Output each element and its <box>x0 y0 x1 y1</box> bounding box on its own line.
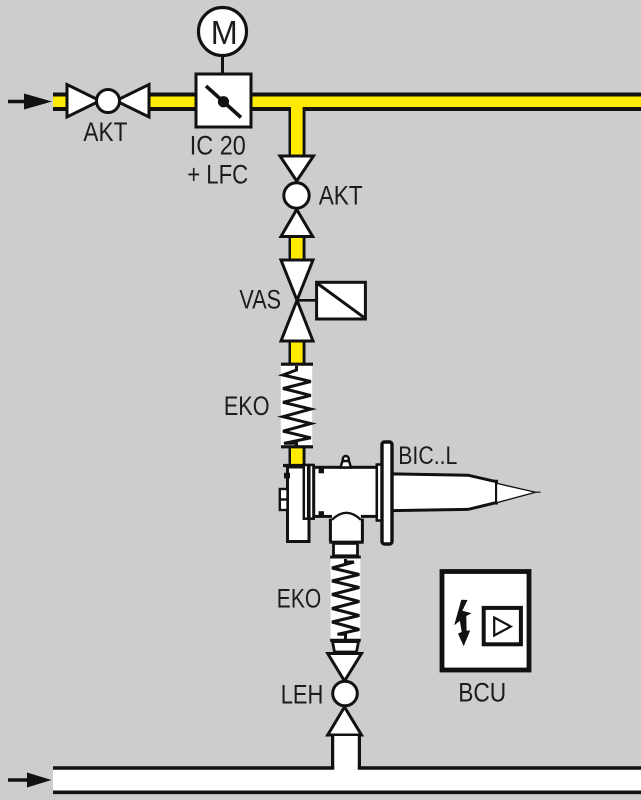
stub flare line <box>329 541 363 544</box>
arrow gas inlet <box>8 94 52 110</box>
control unit BCU <box>442 572 529 671</box>
bolt top <box>319 468 324 473</box>
svg-text:AKT: AKT <box>319 181 363 211</box>
play button <box>484 608 521 644</box>
adapter to EKO2 <box>334 543 358 555</box>
svg-text:EKO: EKO <box>277 584 321 614</box>
nozzle <box>497 483 536 503</box>
solenoid valve VAS <box>281 260 365 341</box>
actuator IC 20 + LFC <box>196 74 251 127</box>
down stub <box>332 514 361 542</box>
svg-text:AKT: AKT <box>83 117 127 147</box>
bolt bottom <box>319 511 324 516</box>
motor M <box>199 8 247 76</box>
expansion joint EKO (upper) <box>281 364 313 447</box>
gas pipe horizontal (main) <box>53 93 641 157</box>
top nub <box>343 456 349 462</box>
left tabs <box>280 489 288 510</box>
valve AKT (vertical) <box>280 156 314 237</box>
valve LEH <box>328 654 362 736</box>
svg-text:LEH: LEH <box>281 679 324 709</box>
flange bars <box>304 465 308 519</box>
right adapter ring <box>377 465 382 521</box>
svg-text:M: M <box>211 15 238 52</box>
tube <box>392 474 496 511</box>
svg-text:IC 20: IC 20 <box>190 131 246 161</box>
arrow air inlet <box>8 773 52 788</box>
air pipe bottom <box>53 768 641 792</box>
stub LEH to air pipe <box>333 735 360 772</box>
svg-text:BIC..L: BIC..L <box>398 442 457 470</box>
pipe segment EKO-burner <box>289 446 306 466</box>
pipe segment AKT-VAS <box>289 237 306 261</box>
back block <box>288 467 310 542</box>
burner BIC..L <box>280 442 541 556</box>
left nub <box>284 473 290 479</box>
big flange <box>382 442 392 544</box>
svg-text:VAS: VAS <box>239 285 281 315</box>
svg-text:+ LFC: + LFC <box>187 160 248 190</box>
lightning bolt <box>454 600 471 647</box>
expansion joint EKO (lower) <box>330 557 361 652</box>
main body <box>314 467 377 516</box>
svg-text:BCU: BCU <box>458 678 506 708</box>
butterfly valve AKT (horizontal) <box>67 85 149 118</box>
pipe segment VAS-EKO <box>289 340 306 365</box>
inlet cap line <box>283 464 314 467</box>
svg-text:EKO: EKO <box>224 391 270 421</box>
